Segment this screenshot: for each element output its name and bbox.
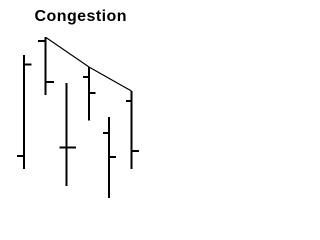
price bar 6 xyxy=(126,91,139,169)
price bar 2 xyxy=(38,37,54,95)
bar 5 left (open) tick xyxy=(103,132,109,134)
bar 3 high-low line xyxy=(66,83,68,186)
bar 4 left (open) tick xyxy=(83,76,89,78)
bar 4 right (close) tick xyxy=(89,92,96,94)
bar 1 right (close) tick xyxy=(24,64,32,66)
bar 2 left (open) tick xyxy=(38,40,46,42)
bar 6 right (close) tick xyxy=(132,150,140,152)
bar 1 high-low line xyxy=(23,55,25,169)
bar 1 left (open) tick xyxy=(17,155,24,157)
trendline (descending across the highs of bars 2, 4 and 6) xyxy=(46,38,132,92)
price bar 1 xyxy=(17,55,32,169)
bar 3 open/close cross tick xyxy=(60,147,77,149)
bar 6 high-low line xyxy=(131,91,133,169)
title: Congestion xyxy=(35,9,128,25)
bar 6 left (open) tick xyxy=(126,100,132,102)
bar 5 high-low line xyxy=(108,117,110,198)
price bar 3 xyxy=(60,83,77,186)
price bar 4 xyxy=(83,67,96,121)
bar 2 right (close) tick xyxy=(46,81,55,83)
bar 4 high-low line xyxy=(88,67,90,121)
bar 5 right (close) tick xyxy=(109,156,116,158)
bar 2 high-low line xyxy=(45,37,47,95)
price bar 5 xyxy=(103,117,116,198)
